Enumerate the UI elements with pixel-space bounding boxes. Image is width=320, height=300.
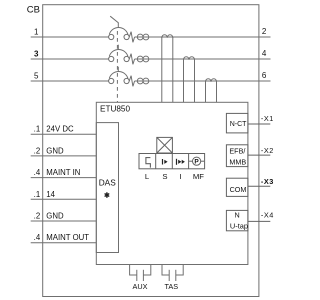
svg-text:5: 5 (34, 71, 39, 80)
svg-text:DAS: DAS (99, 177, 117, 187)
svg-text:.1: .1 (34, 125, 41, 134)
svg-text:.4: .4 (34, 233, 41, 242)
svg-text:L: L (145, 172, 150, 181)
svg-text:MAINT OUT: MAINT OUT (46, 233, 89, 242)
svg-text:N: N (234, 211, 239, 220)
svg-text:14: 14 (46, 190, 55, 199)
svg-text:COM: COM (230, 185, 247, 194)
svg-text:.2: .2 (34, 146, 41, 155)
svg-text:N-CT: N-CT (230, 121, 247, 128)
svg-text:CB: CB (27, 5, 40, 16)
svg-text:.4: .4 (34, 168, 41, 177)
svg-text:GND: GND (46, 146, 64, 155)
svg-text:GND: GND (46, 212, 64, 221)
svg-text:EFB/: EFB/ (229, 147, 245, 156)
svg-text:U-tap: U-tap (230, 222, 248, 231)
svg-text:S: S (162, 172, 167, 181)
svg-text:1: 1 (34, 27, 39, 36)
svg-text:P: P (194, 159, 199, 166)
svg-text:-X1: -X1 (261, 114, 274, 123)
svg-text:TAS: TAS (164, 282, 178, 291)
svg-text:ETU850: ETU850 (100, 105, 130, 114)
svg-text:-X4: -X4 (261, 210, 274, 219)
svg-text:AUX: AUX (132, 282, 147, 291)
svg-text:3: 3 (34, 49, 39, 58)
svg-text:MF: MF (193, 172, 204, 181)
svg-text:I: I (179, 172, 181, 181)
svg-text:.2: .2 (34, 212, 41, 221)
svg-text:.1: .1 (34, 190, 41, 199)
svg-text:-X2: -X2 (261, 146, 274, 155)
svg-text:MAINT IN: MAINT IN (46, 168, 80, 177)
svg-text:6: 6 (262, 71, 267, 80)
svg-text:4: 4 (262, 49, 267, 58)
svg-text:2: 2 (262, 27, 267, 36)
svg-text:24V DC: 24V DC (46, 125, 74, 134)
svg-text:MMB: MMB (229, 157, 246, 166)
svg-text:-X3: -X3 (261, 177, 274, 186)
